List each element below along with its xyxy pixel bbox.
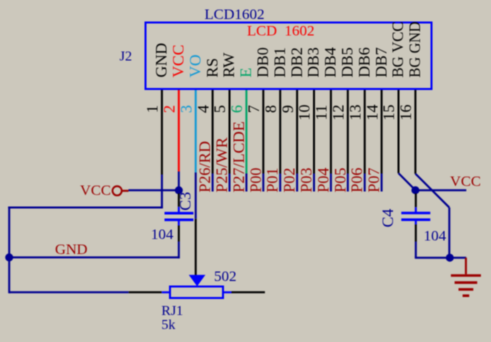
svg-text:15: 15 xyxy=(381,105,398,121)
svg-text:P04: P04 xyxy=(315,168,332,193)
svg-text:P26/RD: P26/RD xyxy=(197,141,214,193)
wire pin 14 xyxy=(381,90,383,192)
svg-text:GND: GND xyxy=(154,43,171,78)
svg-text:P06: P06 xyxy=(349,168,366,193)
svg-text:2: 2 xyxy=(162,105,179,113)
svg-text:DB2: DB2 xyxy=(289,47,306,77)
junction pin15/VCC xyxy=(411,186,419,194)
svg-text:RS: RS xyxy=(204,58,221,78)
wire top-left horizontal xyxy=(8,207,163,209)
svg-text:P03: P03 xyxy=(299,168,316,193)
wire pin 16 BG GND xyxy=(415,90,449,258)
svg-text:P27/LCDE: P27/LCDE xyxy=(231,121,248,192)
svg-text:C3: C3 xyxy=(178,192,195,211)
wire C4 bottom to ground xyxy=(415,257,466,259)
svg-text:E: E xyxy=(238,68,255,78)
svg-text:DB1: DB1 xyxy=(272,47,289,77)
svg-text:3: 3 xyxy=(178,105,195,113)
potentiometer RJ1 xyxy=(162,275,232,298)
svg-text:VCC: VCC xyxy=(171,45,188,78)
wire to VCC right xyxy=(415,189,466,191)
svg-text:DB0: DB0 xyxy=(255,47,272,77)
svg-text:LCD 1602: LCD 1602 xyxy=(247,24,315,40)
capacitor C4 xyxy=(401,190,430,258)
svg-text:GND: GND xyxy=(55,242,88,258)
wire pin 3 VO / wiper xyxy=(195,90,197,275)
svg-text:DB7: DB7 xyxy=(373,47,390,77)
svg-text:DB3: DB3 xyxy=(306,47,323,77)
svg-text:P02: P02 xyxy=(282,168,299,193)
wire pin 9 xyxy=(296,90,298,192)
svg-text:P05: P05 xyxy=(332,168,349,193)
connector J2 body xyxy=(146,23,432,90)
svg-text:C4: C4 xyxy=(380,209,397,228)
svg-text:8: 8 xyxy=(263,105,280,113)
wire pin 8 xyxy=(279,90,281,192)
svg-text:P25/WR: P25/WR xyxy=(214,137,231,192)
svg-text:6: 6 xyxy=(229,105,246,113)
wire bottom horizontal navy xyxy=(9,291,129,293)
ground symbol xyxy=(451,258,481,296)
svg-text:12: 12 xyxy=(331,105,348,121)
svg-text:VCC: VCC xyxy=(80,183,111,199)
capacitor C3 xyxy=(165,190,194,258)
svg-text:4: 4 xyxy=(195,105,212,113)
svg-text:104: 104 xyxy=(424,228,447,244)
svg-text:VO: VO xyxy=(187,54,204,77)
svg-text:104: 104 xyxy=(151,227,174,243)
svg-text:P00: P00 xyxy=(248,168,265,193)
svg-text:BG GND: BG GND xyxy=(407,22,424,78)
svg-text:9: 9 xyxy=(280,105,297,113)
svg-text:J2: J2 xyxy=(120,50,132,65)
svg-text:13: 13 xyxy=(347,105,364,121)
svg-text:RJ1: RJ1 xyxy=(161,304,183,319)
wire pin 11 xyxy=(330,90,332,192)
svg-text:16: 16 xyxy=(398,105,415,121)
wire pin 13 xyxy=(364,90,366,192)
wire pin 4 xyxy=(212,90,214,192)
wire pin 12 xyxy=(347,90,349,192)
svg-text:10: 10 xyxy=(297,105,314,121)
svg-text:5k: 5k xyxy=(161,318,175,333)
svg-text:1: 1 xyxy=(145,105,162,113)
wire VCC to pin2 xyxy=(129,189,179,191)
wire GND horizontal xyxy=(9,256,179,258)
wire bottom horizontal black xyxy=(129,291,162,293)
junction left rail/GND xyxy=(5,253,13,261)
wire pin 6 xyxy=(245,90,247,192)
svg-text:11: 11 xyxy=(314,105,331,120)
svg-text:BG VCC: BG VCC xyxy=(390,22,407,78)
junction C4/pin16 ground xyxy=(446,254,454,262)
junction VCC/pin2 xyxy=(175,186,183,194)
svg-text:DB6: DB6 xyxy=(356,47,373,77)
power port VCC left xyxy=(80,183,129,199)
wire pin 7 xyxy=(262,90,264,192)
svg-text:14: 14 xyxy=(364,105,381,121)
wire pin 5 xyxy=(229,90,231,192)
wire pin 1 GND xyxy=(161,90,163,208)
wire pin 2 VCC xyxy=(178,90,180,190)
svg-text:502: 502 xyxy=(214,269,237,285)
svg-text:LCD1602: LCD1602 xyxy=(205,7,265,23)
wire right of RJ1 xyxy=(232,291,265,293)
wire pin 15 BG VCC xyxy=(399,90,416,190)
svg-text:RW: RW xyxy=(221,52,238,78)
svg-text:DB5: DB5 xyxy=(340,47,357,77)
svg-text:DB4: DB4 xyxy=(323,47,340,77)
wire left vertical rail xyxy=(8,207,10,294)
svg-text:5: 5 xyxy=(212,105,229,113)
svg-text:P01: P01 xyxy=(265,168,282,193)
svg-text:P07: P07 xyxy=(366,168,383,193)
wire pin 10 xyxy=(313,90,315,192)
svg-text:VCC: VCC xyxy=(450,174,481,190)
svg-text:7: 7 xyxy=(246,105,263,113)
